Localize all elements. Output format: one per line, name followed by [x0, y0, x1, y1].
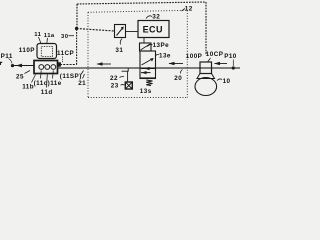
- svg-text:10CP: 10CP: [206, 51, 224, 58]
- svg-text:100P: 100P: [186, 53, 203, 60]
- svg-text:12: 12: [185, 5, 193, 12]
- svg-text:11d: 11d: [41, 89, 53, 96]
- ECU U32 box: [138, 21, 169, 38]
- valve 23 (closed valve, box with X): [125, 82, 132, 89]
- svg-text:13e: 13e: [159, 52, 171, 59]
- label 30: [61, 34, 74, 40]
- pipe 21/20 (main hydraulic line): [58, 67, 240, 69]
- svg-text:11a: 11a: [44, 33, 55, 39]
- svg-text:23: 23: [111, 82, 119, 89]
- svg-text:25: 25: [16, 73, 24, 80]
- pressure sensor 31: [115, 25, 126, 38]
- label P10: [224, 53, 237, 66]
- valve 13e through-path arrow: [141, 67, 155, 70]
- P11 stub line: [13, 65, 35, 67]
- svg-text:32: 32: [152, 14, 160, 21]
- wheel cylinder inlet box 10CP: [200, 62, 212, 74]
- edge mark (cut-off ink at image border): [0, 62, 2, 65]
- solenoid 13Pe: [140, 43, 152, 51]
- valve 13e throttle arrow (upper chamber): [142, 58, 154, 65]
- flow arrow near 20 (left): [169, 62, 184, 66]
- label 25: [16, 71, 30, 81]
- svg-text:21: 21: [78, 80, 86, 87]
- junction dot on line 30: [75, 27, 78, 30]
- label 31: [115, 39, 123, 54]
- label 22: [110, 75, 124, 82]
- reservoir 11a body: [37, 44, 57, 59]
- wire ECU to solenoid 13Pe: [143, 38, 145, 44]
- label 21: [78, 74, 86, 87]
- label 11e: [50, 71, 62, 88]
- svg-text:11b: 11b: [22, 83, 34, 90]
- wire sensor31 to ECU: [126, 31, 139, 33]
- svg-text:13s: 13s: [140, 88, 152, 95]
- svg-text:11e: 11e: [50, 80, 62, 87]
- label 32: [146, 14, 160, 21]
- P11 point dot: [11, 64, 14, 67]
- svg-text:31: 31: [115, 47, 123, 54]
- label 13Pe: [148, 42, 170, 49]
- wheel cylinder neck: [197, 74, 215, 79]
- inner dashed box (hydraulic unit boundary): [88, 10, 187, 97]
- label 11a: [44, 33, 55, 44]
- piston circle 11c: [39, 65, 44, 70]
- svg-text:P10: P10: [224, 53, 237, 60]
- label 13e: [156, 52, 171, 59]
- label (11SP): [60, 71, 84, 81]
- junction dot at P10: [232, 66, 235, 69]
- valve spring 13s: [146, 80, 152, 86]
- label 10: [217, 78, 231, 85]
- label 11: [34, 32, 41, 44]
- wheel cylinder 10 body: [195, 78, 217, 96]
- valve 13e bottom edge emphasis: [140, 77, 156, 79]
- label 23: [111, 82, 125, 89]
- master cylinder 11 body: [34, 61, 58, 74]
- svg-text:ECU: ECU: [143, 24, 163, 34]
- flow arrow near 22 (left): [97, 62, 112, 66]
- label (11c): [34, 71, 51, 88]
- sensing port 11SP nub: [58, 63, 61, 67]
- signal line 30 (dashed, from MC port up and right to sensor 31): [60, 29, 115, 65]
- valve 13e body: [140, 51, 156, 79]
- flow arrow near P10 (left): [214, 62, 227, 66]
- svg-text:P11: P11: [1, 53, 13, 60]
- svg-text:20: 20: [174, 75, 182, 82]
- label 10CP: [206, 51, 224, 62]
- label 20: [174, 70, 182, 82]
- flow arrow at P11 (left): [16, 64, 22, 68]
- svg-text:13Pe: 13Pe: [153, 42, 170, 49]
- svg-text:(11SP): (11SP): [60, 73, 82, 80]
- valve 13e lower path arrow: [141, 71, 151, 74]
- piston circle 11d: [45, 65, 50, 70]
- svg-text:(11c): (11c): [34, 80, 51, 87]
- reservoir fluid level (inner dashed rect): [41, 47, 52, 57]
- leader 11CP to port (dashed): [62, 57, 64, 63]
- label 11b: [22, 75, 35, 91]
- svg-text:110P: 110P: [19, 47, 35, 54]
- label 11d: [41, 75, 53, 97]
- svg-text:22: 22: [110, 75, 118, 82]
- label 12: [182, 5, 193, 12]
- svg-text:30: 30: [61, 34, 69, 40]
- svg-text:10: 10: [223, 78, 231, 85]
- svg-text:11CP: 11CP: [57, 50, 74, 57]
- piston circle 11e: [51, 65, 56, 70]
- label P11: [1, 53, 13, 64]
- dashed box 12 (outer unit boundary): [77, 2, 206, 55]
- svg-text:11: 11: [34, 32, 41, 38]
- branch line 22 from pipe: [122, 68, 129, 82]
